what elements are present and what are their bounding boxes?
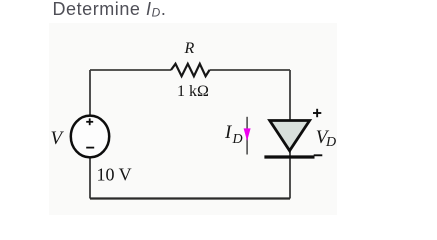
svg-text:R: R bbox=[184, 40, 195, 57]
svg-text:Determine ID.: Determine ID. bbox=[53, 0, 167, 20]
svg-text:10 V: 10 V bbox=[97, 165, 132, 185]
svg-text:D: D bbox=[325, 135, 336, 150]
svg-text:D: D bbox=[232, 132, 243, 147]
svg-text:1 kΩ: 1 kΩ bbox=[177, 83, 209, 100]
